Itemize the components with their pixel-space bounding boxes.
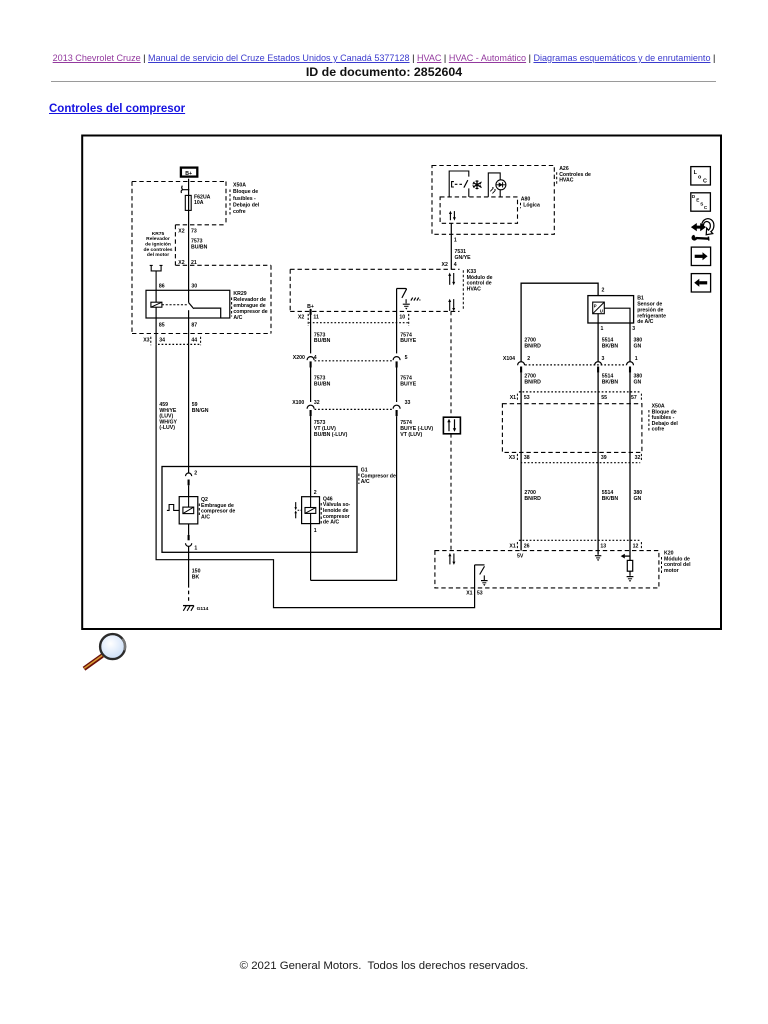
svg-text:73: 73 <box>191 228 197 234</box>
indicator LED <box>488 173 506 197</box>
X100 interface dotted line <box>315 408 393 410</box>
logic block A80 dashed box <box>440 197 517 223</box>
wire 2700 BN/RD to B1 pin 2 <box>521 283 598 362</box>
forward arrow button <box>691 247 710 265</box>
wire B+ to fuse <box>188 179 190 190</box>
wire 7573 BU/BN label upper <box>314 332 331 344</box>
svg-text:2: 2 <box>314 490 317 496</box>
back arrow button <box>691 274 710 292</box>
svg-text:BK/BN: BK/BN <box>602 496 619 502</box>
svg-text:53: 53 <box>524 395 530 401</box>
wire 59 BN/GN run to Q2 <box>188 344 190 473</box>
K20 serial data symbol <box>448 553 455 565</box>
svg-text:2: 2 <box>194 470 197 476</box>
inline connector X104 pin 2 <box>503 356 530 373</box>
wire 5514 BK/BN label upper <box>602 338 619 350</box>
svg-text:S: S <box>700 201 703 206</box>
X50A label (lower) <box>649 404 678 433</box>
svg-text:A80: A80 <box>521 197 531 203</box>
svg-text:12: 12 <box>633 543 639 549</box>
svg-text:(-LUV): (-LUV) <box>159 425 175 431</box>
svg-text:BN/GN: BN/GN <box>192 408 209 414</box>
Q46 label <box>321 496 350 525</box>
wire 7573 VT label lower <box>314 420 348 438</box>
svg-text:C: C <box>703 179 707 185</box>
relay KR75 label <box>143 231 172 258</box>
svg-text:HVAC: HVAC <box>559 178 574 184</box>
svg-text:BU/BN (-LUV): BU/BN (-LUV) <box>314 432 348 438</box>
LOC navigation button <box>691 167 711 185</box>
G1 label <box>359 468 396 486</box>
K33 label <box>463 269 492 311</box>
svg-text:de A/C: de A/C <box>323 520 339 526</box>
svg-text:10: 10 <box>399 314 405 320</box>
Q2 pin 2 inline connector <box>186 470 198 485</box>
connector X2 pin 73 <box>178 228 197 234</box>
svg-text:1: 1 <box>454 237 457 243</box>
K33 serial data symbol upper <box>448 273 455 286</box>
svg-text:1: 1 <box>194 546 197 552</box>
svg-text:86: 86 <box>159 284 165 290</box>
wire X200 to X100 right <box>396 368 398 403</box>
svg-text:7573: 7573 <box>191 238 203 244</box>
svg-text:33: 33 <box>405 400 411 406</box>
svg-text:Debajo del: Debajo del <box>233 202 260 208</box>
wire 2700 label lower <box>524 490 541 502</box>
K33 internal ground switch pin 10 <box>397 289 421 312</box>
page title link <box>49 103 185 115</box>
pull-up resistor in K20 <box>627 560 632 575</box>
svg-text:Relevador: Relevador <box>146 236 170 242</box>
wire 59 label <box>192 402 209 414</box>
wire 459 label <box>159 402 177 431</box>
wire 7574 BU/YE label lower <box>400 420 433 438</box>
inline connector X100 pin 32 <box>292 400 320 416</box>
ground symbol K20 pin 13 <box>595 556 601 561</box>
wire 7574 BU/YE label upper <box>400 332 416 344</box>
connector X1 pins 26 13 12 of K20 <box>509 540 641 549</box>
svg-text:C: C <box>704 205 708 210</box>
K20 input switch X1-53 <box>475 565 485 580</box>
wire 5514 label lower <box>602 490 619 502</box>
wire 150 BK <box>189 547 201 585</box>
document id <box>0 65 768 79</box>
wire K33 pin11 to X200 <box>310 309 312 354</box>
wire X100 to Q46 pin 2 <box>310 416 312 497</box>
breadcrumb <box>0 53 768 63</box>
inline connector X104 pin 1 <box>627 356 638 373</box>
wire fuse to X2-73 <box>188 210 190 290</box>
svg-text:X2: X2 <box>442 262 448 268</box>
wire 7573 BU/BN label mid <box>314 376 331 388</box>
svg-text:X1: X1 <box>466 590 472 596</box>
svg-text:55: 55 <box>601 395 607 401</box>
svg-text:1: 1 <box>601 326 604 332</box>
svg-text:Bloque de: Bloque de <box>233 189 258 195</box>
svg-text:de A/C: de A/C <box>637 319 653 325</box>
wire pin85 down <box>155 318 157 344</box>
svg-text:1: 1 <box>314 528 317 534</box>
inline connector X104 pin 3 <box>595 356 605 373</box>
inline connector X100 pin 33 <box>393 400 410 416</box>
svg-text:X2: X2 <box>298 314 304 320</box>
inline connector X200 pin 5 <box>393 355 408 367</box>
svg-text:26: 26 <box>524 543 530 549</box>
compressor G1 body <box>162 467 357 553</box>
connector X3 pins 38 39 32 <box>509 454 642 463</box>
svg-text:13: 13 <box>600 543 606 549</box>
schematic frame <box>82 136 721 630</box>
wire X104 to K20 right <box>629 373 631 561</box>
svg-text:11: 11 <box>313 314 319 320</box>
signal arrow K20 pin 12 <box>621 554 630 559</box>
connector X1 pins 53 55 57 <box>510 392 642 401</box>
wire 380 GN label upper <box>634 338 643 350</box>
svg-text:BK: BK <box>192 574 200 580</box>
svg-text:de ignición: de ignición <box>145 242 171 248</box>
fuse F62UA body <box>185 190 191 211</box>
connector X2 pin 4 of K33 <box>442 262 457 268</box>
svg-text:BN/RD: BN/RD <box>524 496 541 502</box>
connector X3 pins 34 44 <box>143 337 200 345</box>
svg-text:38: 38 <box>524 455 530 461</box>
wire 2700 label mid <box>524 374 541 386</box>
KR29 coil <box>151 290 162 318</box>
svg-text:cofre: cofre <box>652 427 665 433</box>
wire Q46 pin1 down <box>310 524 312 581</box>
wire 380 label lower <box>634 490 643 502</box>
svg-text:34: 34 <box>159 338 165 344</box>
svg-text:BU/BN: BU/BN <box>314 338 331 344</box>
svg-text:X2: X2 <box>178 228 184 234</box>
KR29 contact blade <box>189 290 221 318</box>
svg-text:BK/BN: BK/BN <box>602 344 619 350</box>
KR29 coil-contact dashed link <box>162 304 188 306</box>
svg-text:32: 32 <box>314 400 320 406</box>
wire 380 label mid <box>634 374 643 386</box>
wire X104 to K20 mid <box>597 373 599 555</box>
svg-text:GN: GN <box>634 496 642 502</box>
svg-text:X100: X100 <box>292 400 304 406</box>
B1 label <box>637 296 666 326</box>
wire B1 pin3 to X104 <box>629 323 631 362</box>
ground symbol at K20 switch <box>481 581 488 586</box>
connector X1 pin 53 of K20 <box>466 590 483 596</box>
relay KR29 body <box>146 290 230 318</box>
svg-text:X104: X104 <box>503 356 515 362</box>
Q2 pin 1 inline connector <box>186 524 198 552</box>
svg-text:del motor: del motor <box>147 252 169 258</box>
wire 5514 label mid <box>602 374 619 386</box>
wire A80 to K33 pin 4 <box>450 223 452 269</box>
wire into Q2 <box>188 485 190 496</box>
svg-text:53: 53 <box>477 590 483 596</box>
svg-text:GN: GN <box>634 379 642 385</box>
serial data dashed bus junction to K20 <box>450 434 452 551</box>
wire 7531 GN/YE label <box>455 249 472 261</box>
svg-text:BU/BN: BU/BN <box>314 381 331 387</box>
connector X2 pins 11 10 of K33 <box>298 314 409 326</box>
svg-text:GN: GN <box>634 344 642 350</box>
A80 serial data symbol <box>449 211 456 221</box>
svg-text:X3: X3 <box>509 455 515 461</box>
svg-text:BU/YE: BU/YE <box>400 381 416 387</box>
ground symbol below resistor <box>627 577 634 582</box>
X50A fuse block dashed enclosure (top) <box>132 182 226 334</box>
A/C request switch <box>449 171 469 197</box>
svg-text:BN/RD: BN/RD <box>524 379 541 385</box>
dashed ground lead <box>188 584 190 601</box>
X50A fuse block dashed box (lower) <box>502 404 642 453</box>
svg-text:KR75: KR75 <box>152 231 165 237</box>
svg-text:4: 4 <box>454 262 457 268</box>
connector X2 pin 21 <box>178 260 197 266</box>
svg-text:VT (LUV): VT (LUV) <box>400 432 422 438</box>
svg-text:2: 2 <box>602 288 605 294</box>
svg-text:X1: X1 <box>509 543 515 549</box>
wire 7574 down to Q46 pin 1 link <box>311 416 397 580</box>
footer copyright <box>0 960 768 972</box>
svg-text:X1: X1 <box>510 395 516 401</box>
svg-text:B+: B+ <box>185 171 192 177</box>
svg-text:G114: G114 <box>197 606 209 612</box>
wire 7574 BU/YE label mid <box>400 376 416 388</box>
X50A label (top) <box>230 183 260 217</box>
routing diagram icon <box>691 219 714 241</box>
svg-text:1: 1 <box>635 356 638 362</box>
svg-text:BK/BN: BK/BN <box>602 379 619 385</box>
svg-text:cofre: cofre <box>233 209 246 215</box>
snowflake A/C symbol <box>473 180 482 189</box>
svg-text:X50A: X50A <box>233 183 246 189</box>
fuse clip symbol <box>181 186 189 193</box>
HVAC controls A26 dashed box <box>432 166 554 235</box>
wire 459 WH/YE run to K20 <box>156 344 475 607</box>
wire K33 pin10 to X200 <box>396 311 398 353</box>
K33 HVAC control module dashed box <box>290 269 459 311</box>
svg-text:A/C: A/C <box>361 479 370 485</box>
engine control module K20 dashed box <box>435 551 659 588</box>
svg-text:30: 30 <box>191 284 197 290</box>
KR29 dashed enclosure <box>132 265 271 333</box>
horizontal rule <box>51 81 716 82</box>
K33 serial data symbol lower <box>448 299 455 312</box>
svg-text:Lógica: Lógica <box>523 203 540 209</box>
svg-text:39: 39 <box>601 455 607 461</box>
KR29 pin 87 wire <box>188 310 190 344</box>
svg-text:P: P <box>594 304 597 309</box>
svg-text:5: 5 <box>405 355 408 361</box>
DESC navigation button <box>691 193 711 211</box>
refrigerant pressure sensor B1 <box>588 296 634 323</box>
svg-text:32: 32 <box>635 455 641 461</box>
svg-text:BU/BN: BU/BN <box>191 245 208 251</box>
svg-text:57: 57 <box>631 395 637 401</box>
wire 7573 BU/BN label <box>191 238 208 250</box>
wire X200 to X100 left <box>310 368 312 403</box>
svg-text:85: 85 <box>159 322 165 328</box>
svg-text:de controles: de controles <box>143 247 172 253</box>
svg-text:X200: X200 <box>293 355 305 361</box>
svg-text:L: L <box>694 170 698 176</box>
svg-text:A/C: A/C <box>233 315 242 321</box>
serial data dashed bus K33 to junction <box>450 311 452 417</box>
A26 label <box>557 166 591 184</box>
svg-text:3: 3 <box>632 326 635 332</box>
svg-text:X3: X3 <box>143 338 149 344</box>
K20 label <box>662 551 692 574</box>
relay KR75 contact stub <box>150 265 163 290</box>
svg-text:fusibles -: fusibles - <box>233 196 256 202</box>
X104 interface dotted line <box>525 364 626 366</box>
svg-text:motor: motor <box>664 568 679 574</box>
svg-text:10A: 10A <box>194 200 204 206</box>
A/C clutch Q2 <box>167 497 198 524</box>
svg-text:44: 44 <box>191 338 197 344</box>
wire 2700 BN/RD label upper <box>524 338 541 350</box>
wire B1 pin1 to X104 <box>597 323 599 362</box>
inline connector X200 pin 4 <box>293 355 317 367</box>
fuse F62UA value label <box>194 195 211 206</box>
svg-text:GN/YE: GN/YE <box>455 255 472 261</box>
svg-text:5V: 5V <box>517 554 524 560</box>
Q2 label <box>199 497 235 520</box>
svg-text:E: E <box>696 198 699 203</box>
solenoid valve Q46 <box>294 497 319 524</box>
ground G114 <box>183 606 209 613</box>
svg-text:2: 2 <box>527 356 530 362</box>
KR29 label <box>232 291 268 321</box>
svg-text:U: U <box>600 309 603 314</box>
battery B+ terminal <box>181 168 197 178</box>
wire X104 to K20 left <box>520 373 522 551</box>
serial data junction box <box>443 417 460 434</box>
svg-text:o: o <box>698 174 702 180</box>
svg-text:BU/YE: BU/YE <box>400 338 416 344</box>
svg-text:BN/RD: BN/RD <box>524 344 541 350</box>
svg-text:87: 87 <box>191 322 197 328</box>
svg-text:A/C: A/C <box>201 514 210 520</box>
X200 interface dotted line <box>315 360 393 362</box>
A80 label <box>521 197 541 209</box>
svg-text:HVAC: HVAC <box>467 286 482 292</box>
svg-text:3: 3 <box>602 356 605 362</box>
